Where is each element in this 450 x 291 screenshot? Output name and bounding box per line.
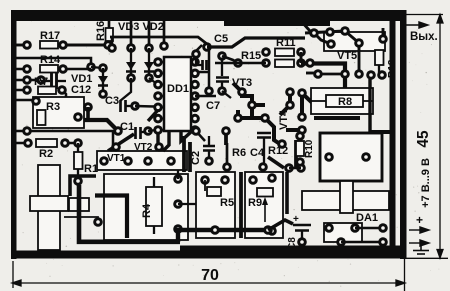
resistor R7 <box>22 76 67 95</box>
wire left mid thick <box>70 176 96 196</box>
resistor R16 <box>95 21 113 50</box>
wire DD1 bottom to VT box <box>158 131 191 151</box>
diode VD1 <box>98 63 108 99</box>
wire R14 row <box>16 68 91 71</box>
node pads row y74 <box>313 69 387 80</box>
svg-text:70: 70 <box>201 267 219 284</box>
node pads right col <box>378 223 388 247</box>
wire stub to DD1 top pad <box>163 21 166 42</box>
wire R7 row <box>16 90 88 107</box>
IC DA1 vertical tab <box>340 181 353 213</box>
node Vykh output arrow <box>404 22 428 28</box>
transistor VT5 outline box <box>324 32 385 62</box>
resistor R2 <box>23 138 70 160</box>
resistor R5 with outline box <box>196 172 235 238</box>
svg-text:R3: R3 <box>46 101 60 113</box>
wire vertical x296 <box>294 140 298 168</box>
node pads C2 row <box>191 126 231 136</box>
wire diode feeds from bus <box>131 21 149 44</box>
wire diag to DD1 <box>148 110 158 121</box>
svg-text:Вых.: Вых. <box>410 31 438 43</box>
wire thick bottom mid <box>178 230 268 242</box>
wire y168 link <box>289 167 301 170</box>
wire R3 box feed <box>16 99 36 102</box>
wire row y80 <box>16 79 40 82</box>
wire horizontal y72 <box>197 71 209 74</box>
wire R17 row <box>16 44 108 47</box>
svg-text:R5: R5 <box>220 197 234 209</box>
wire VD3 down <box>120 78 131 101</box>
capacitor C5 <box>191 33 228 70</box>
svg-text:R17: R17 <box>40 30 60 42</box>
svg-text:+7 В...9 В: +7 В...9 В <box>420 158 432 208</box>
wire thick mid-left <box>84 120 118 131</box>
capacitor C1 <box>120 121 156 139</box>
wire x227 vertical <box>226 143 229 167</box>
svg-text:+: + <box>293 214 299 225</box>
node pads right col of R4 box <box>173 174 183 234</box>
wire thick L inside R4 box <box>95 196 127 239</box>
IC DD1 right pin pads <box>190 57 200 135</box>
node pad x98 <box>93 217 103 227</box>
board outline <box>11 10 407 259</box>
node pad x207 <box>202 42 212 52</box>
wire right vertical bus <box>390 21 396 250</box>
wire diag to C8 <box>268 220 293 230</box>
svg-text:R9: R9 <box>248 197 262 209</box>
svg-text:C12: C12 <box>71 84 91 96</box>
wire top right cluster <box>301 21 383 74</box>
svg-text:C4: C4 <box>250 147 265 159</box>
node VT3 cluster pads <box>233 87 307 149</box>
wire verticals near C2 <box>184 135 226 172</box>
wire vertical x209 <box>208 50 211 88</box>
wire to VD1 <box>91 67 103 68</box>
wire bottom bus segment <box>180 246 400 252</box>
wire top mid horizontal <box>110 37 207 44</box>
resistor R4 outline box <box>104 174 188 240</box>
node pad y131 <box>22 126 32 136</box>
svg-text:VT4: VT4 <box>278 109 290 130</box>
node pads above VT box <box>111 142 164 152</box>
node pad x118 <box>113 126 123 136</box>
node pad above DD1 <box>159 41 169 51</box>
svg-text:R8: R8 <box>338 96 352 108</box>
resistor R18 <box>375 50 398 78</box>
wire thick left-bottom L <box>79 185 180 242</box>
wire VD2 to DD1 <box>149 78 157 84</box>
IC DA1 footprint box <box>324 223 362 247</box>
wire x112 stub <box>111 37 114 44</box>
svg-text:R18: R18 <box>387 59 398 78</box>
svg-text:R11: R11 <box>276 37 296 49</box>
capacitor C12 <box>41 73 92 96</box>
crystal ZQ1 tall body <box>38 165 60 250</box>
svg-text:C3: C3 <box>105 95 119 107</box>
node pad y230 <box>210 225 220 235</box>
resistor R3 with outline box <box>31 96 84 128</box>
IC DD1 pin leads <box>158 62 195 130</box>
resistor R11 <box>261 37 306 57</box>
wire vertical x377 <box>368 79 371 132</box>
diode VD2 <box>144 43 154 83</box>
svg-text:R1: R1 <box>84 163 98 175</box>
node pads top right <box>309 26 388 49</box>
svg-text:R14: R14 <box>40 54 61 66</box>
svg-text:VT2: VT2 <box>134 142 153 153</box>
svg-text:+: + <box>416 213 423 227</box>
wire R11-R15 join <box>300 52 303 63</box>
wire thick right mid <box>301 64 345 89</box>
resistor R17 <box>22 30 68 50</box>
svg-text:C8: C8 <box>287 237 298 250</box>
wire diag below C1 <box>108 134 134 151</box>
wire top right of C5 <box>207 38 305 47</box>
svg-text:C5: C5 <box>214 33 228 45</box>
transistor VT1 VT2 outline box <box>97 142 187 170</box>
svg-text:45: 45 <box>415 130 432 148</box>
ground <box>413 243 429 254</box>
wire joining bus y132 <box>370 130 392 134</box>
svg-text:VD3 VD2: VD3 VD2 <box>118 21 164 33</box>
IC DA1 horizontal body <box>302 191 389 210</box>
wire under R8 box <box>314 116 360 120</box>
capacitor C8 <box>287 214 311 250</box>
svg-text:VT1: VT1 <box>107 153 126 164</box>
relay K1 outline box <box>320 133 382 181</box>
wire DD1 right pin links <box>195 96 216 141</box>
wire top ground bus <box>16 16 400 21</box>
wire x88 down to thick <box>86 107 90 120</box>
svg-text:C1: C1 <box>120 121 134 133</box>
resistor R4 <box>141 177 162 234</box>
resistor R15 <box>215 50 306 68</box>
node pad x209 bottom <box>204 86 214 96</box>
dimension 45 right <box>404 15 448 259</box>
node pad x112 <box>107 43 117 53</box>
svg-text:R2: R2 <box>39 148 53 160</box>
svg-text:R6: R6 <box>232 147 246 159</box>
resistor R8 with outline box <box>311 88 373 114</box>
node pad x310 <box>305 58 315 68</box>
wire VT3 maze <box>233 83 322 144</box>
diode VD3 <box>126 43 136 83</box>
capacitor C7 <box>206 51 238 112</box>
node pads y80 <box>22 75 46 85</box>
wire R4 box connections <box>178 170 197 204</box>
dimension 70 bottom <box>12 259 405 291</box>
node pads row y167 <box>222 162 306 181</box>
svg-text:C7: C7 <box>206 100 220 112</box>
node pad right of R3 box <box>83 102 93 112</box>
wire vertical x287 <box>285 172 289 214</box>
resistor R9 with outline box <box>245 172 283 238</box>
node pad x268 <box>263 225 273 235</box>
wire row y74 <box>318 73 345 76</box>
svg-text:R10: R10 <box>304 139 315 158</box>
wire R2 row <box>16 142 77 145</box>
svg-text:R12: R12 <box>268 145 288 157</box>
svg-text:R4: R4 <box>141 203 153 218</box>
capacitor C4 <box>250 133 271 165</box>
svg-text:R16: R16 <box>95 21 107 41</box>
resistor R10 <box>295 131 315 167</box>
wire row y58 <box>16 58 91 66</box>
wire supply arrow 1 <box>409 227 429 233</box>
svg-text:R15: R15 <box>241 50 261 62</box>
node junction y67 <box>86 62 96 72</box>
svg-text:R7: R7 <box>34 76 48 88</box>
capacitor C2 <box>190 136 215 166</box>
wire supply arrow 2 <box>409 240 429 246</box>
IC DD1 left pin pads <box>153 57 163 135</box>
crystal ZQ1 cross bar <box>30 196 68 211</box>
wire pad stub bottom-left <box>64 217 98 222</box>
svg-text:VT5: VT5 <box>337 50 357 62</box>
IC DD1 <box>164 57 191 131</box>
wire row y131 <box>16 131 113 146</box>
resistor R12 <box>268 145 288 168</box>
capacitor C3 <box>105 95 154 112</box>
wire vertical x241 <box>239 172 243 238</box>
resistor R14 <box>22 54 68 74</box>
wire upper bus segment <box>224 20 330 26</box>
wire DA1 to border <box>341 228 383 242</box>
svg-text:DD1: DD1 <box>167 83 189 95</box>
crystal ZQ1 side tab <box>69 198 89 211</box>
resistor R1 <box>73 138 98 186</box>
